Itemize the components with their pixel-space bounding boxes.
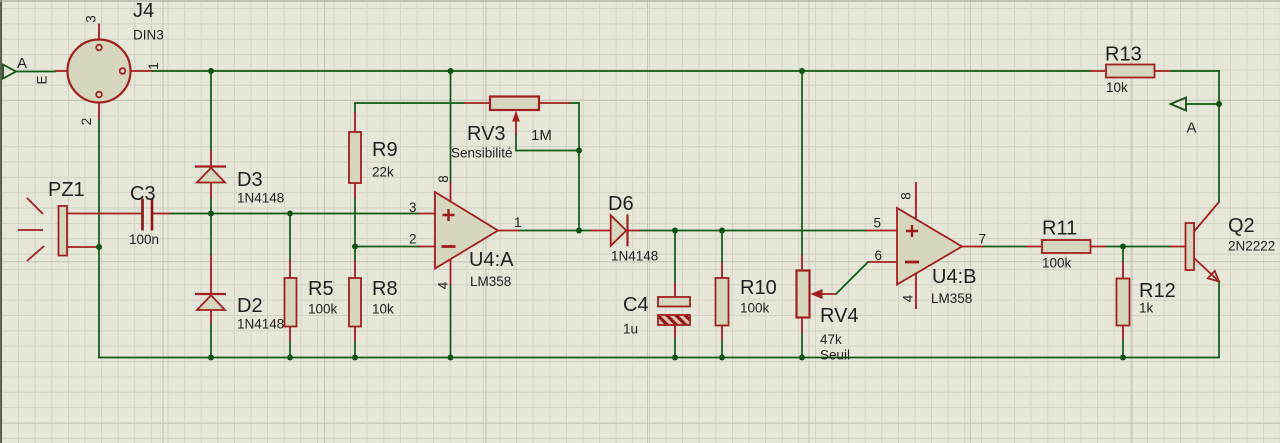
svg-text:R8: R8: [372, 278, 398, 300]
svg-text:RV4: RV4: [820, 305, 859, 327]
wire: VCC dot down to U4:A pin8: [450, 71, 452, 182]
terminal A (right, near Q2): [1171, 98, 1187, 111]
svg-text:2N2222: 2N2222: [1228, 239, 1275, 254]
svg-text:Sensibilité: Sensibilité: [451, 146, 513, 161]
svg-text:Q2: Q2: [1228, 215, 1255, 237]
svg-text:LM358: LM358: [470, 274, 511, 289]
svg-text:R13: R13: [1105, 44, 1142, 66]
junction: output node at RV3 column: [576, 228, 582, 234]
svg-text:R9: R9: [372, 139, 398, 161]
diode D2 1N4148: [195, 255, 226, 324]
junction: pin2 node R9/R8: [352, 244, 358, 250]
resistor R13 10k: [1090, 65, 1171, 78]
svg-text:22k: 22k: [372, 165, 394, 180]
junction: input node at R5: [287, 211, 293, 217]
svg-text:47k: 47k: [820, 332, 842, 347]
svg-text:1: 1: [146, 62, 161, 70]
resistor R8 10k: [349, 260, 361, 341]
junction: detector node at R10: [719, 228, 725, 234]
junction: top rail at RV4 branch: [799, 68, 805, 74]
svg-text:R12: R12: [1139, 280, 1176, 302]
capacitor C3 100n: [143, 199, 171, 231]
diode D3 1N4148: [195, 150, 226, 198]
connector J4 DIN3: [55, 24, 152, 120]
junction: ground rail at R10: [719, 355, 725, 361]
svg-text:8: 8: [436, 175, 451, 183]
wire: R12 bottom to ground rail: [1122, 340, 1124, 358]
wire: C4 bottom to ground rail: [674, 338, 676, 358]
svg-text:C4: C4: [623, 294, 649, 316]
wire: input node horizontal C3 to U4:A pin3: [170, 213, 419, 215]
transistor Q2 2N2222: [1170, 202, 1219, 282]
wire: R9 bottom to pin2 node: [354, 198, 356, 247]
svg-text:D3: D3: [237, 169, 263, 191]
svg-text:LM358: LM358: [931, 291, 972, 306]
wire: VCC dot down to RV4 top: [801, 71, 803, 255]
wire: VCC top rail J4 pin1 to R13: [152, 70, 1090, 72]
potentiometer RV4 47k: [797, 255, 837, 333]
wire: VCC dot down to D3: [210, 71, 212, 150]
wire: R5 top to input node: [289, 214, 291, 261]
terminal A (left input): [3, 65, 16, 79]
svg-text:4: 4: [901, 294, 916, 302]
junction: ground rail at U4:A pin4: [448, 355, 454, 361]
junction: ground rail at R8: [352, 355, 358, 361]
svg-text:1: 1: [514, 215, 522, 230]
wire: R8 bottom to ground rail: [354, 341, 356, 358]
wire: R10 bottom to ground rail: [721, 340, 723, 358]
wire: R11 to Q2 base: [1106, 246, 1170, 248]
svg-text:D2: D2: [237, 295, 263, 317]
junction: RV3 wiper/right end: [576, 148, 582, 154]
svg-text:100k: 100k: [1042, 256, 1072, 271]
resistor R10 100k: [716, 262, 729, 340]
junction: ground rail at D2: [208, 355, 214, 361]
svg-text:100k: 100k: [740, 301, 770, 316]
svg-text:C3: C3: [130, 183, 156, 205]
wire: D3 to input node: [210, 198, 212, 214]
piezo transducer PZ1: [18, 198, 143, 261]
junction: ground rail at R12: [1120, 355, 1126, 361]
wire: R9 top corner to RV3 left: [355, 103, 464, 112]
svg-text:U4:B: U4:B: [932, 266, 976, 288]
svg-text:A: A: [17, 55, 27, 72]
svg-text:1u: 1u: [623, 322, 638, 337]
op-amp U4:B LM358: [866, 182, 983, 309]
junction: top rail at U4:A pin8 branch: [448, 68, 454, 74]
wire: J4 pin2 down to ground rail: [98, 119, 100, 358]
svg-text:RV3: RV3: [467, 123, 506, 145]
wire: pin2 node down to R8: [354, 247, 356, 261]
diode D6 1N4148: [590, 214, 640, 246]
junction: ground rail at R5: [287, 355, 293, 361]
wire: D2 to ground rail: [210, 324, 212, 358]
svg-text:J4: J4: [133, 0, 154, 22]
svg-text:5: 5: [874, 216, 882, 231]
potentiometer RV3 1M: [464, 97, 570, 135]
wire: RV4 bottom to ground rail: [801, 333, 803, 358]
svg-text:R5: R5: [308, 278, 334, 300]
wire: input node down to D2: [210, 214, 212, 256]
wire: detector node down to C4: [674, 231, 676, 284]
wire: VCC top rail R13 to corner and down to Q2 collector: [1171, 71, 1220, 202]
svg-text:2: 2: [409, 232, 417, 247]
svg-text:8: 8: [899, 192, 914, 200]
svg-text:1N4148: 1N4148: [611, 249, 658, 264]
svg-text:PZ1: PZ1: [48, 179, 85, 201]
junction: ground rail at RV4: [799, 355, 805, 361]
svg-text:10k: 10k: [1106, 80, 1128, 95]
wire: terminal A to J4 pin E: [16, 71, 55, 73]
svg-text:1N4148: 1N4148: [237, 317, 284, 332]
svg-text:E: E: [35, 75, 50, 84]
svg-text:1M: 1M: [531, 127, 552, 144]
junction: detector node at C4: [672, 228, 678, 234]
resistor R12 1k: [1117, 262, 1130, 340]
svg-text:R11: R11: [1042, 218, 1077, 240]
resistor R5 100k: [285, 260, 297, 341]
wire: R5 bottom to ground rail: [289, 341, 291, 358]
junction: PZ1 bottom to ground column: [96, 244, 102, 250]
wire: D6 to U4:B pin5: [640, 230, 866, 232]
svg-text:A: A: [1187, 120, 1197, 137]
wire: detector node down to R10: [721, 231, 723, 263]
junction: top rail at D3 branch: [208, 68, 214, 74]
svg-text:U4:A: U4:A: [469, 249, 514, 271]
wire: terminal A2 to collector node: [1186, 103, 1219, 105]
capacitor C4 1u (polarized): [658, 283, 690, 338]
svg-text:10k: 10k: [372, 302, 394, 317]
svg-text:100n: 100n: [129, 232, 159, 247]
svg-text:DIN3: DIN3: [133, 28, 164, 43]
svg-text:Seuil: Seuil: [820, 348, 850, 363]
wire: pin2 node to U4:A pin2: [355, 246, 419, 248]
resistor R9 22k: [349, 112, 361, 198]
svg-text:1N4148: 1N4148: [237, 191, 284, 206]
svg-text:R10: R10: [740, 277, 777, 299]
junction: input node at D3/D2: [208, 211, 214, 217]
wire: U4:A output to D6: [519, 230, 590, 232]
svg-text:3: 3: [84, 15, 99, 23]
svg-text:D6: D6: [608, 193, 634, 215]
svg-text:2: 2: [79, 118, 94, 126]
wire: U4:A pin4 to ground rail: [450, 285, 452, 358]
wire: emitter down to ground rail: [1218, 281, 1220, 358]
svg-text:6: 6: [875, 248, 883, 263]
wire: base node down to R12: [1122, 247, 1124, 263]
wire: RV3 right end to feedback node and down to output: [570, 103, 579, 231]
wire: U4:B output to R11: [983, 246, 1026, 248]
junction: ground rail at C4: [672, 355, 678, 361]
svg-text:3: 3: [409, 200, 417, 215]
svg-text:100k: 100k: [308, 302, 338, 317]
op-amp U4:A LM358: [419, 182, 519, 285]
wire: RV4 wiper diagonal to U4:B pin6: [836, 262, 868, 294]
resistor R11 100k: [1026, 240, 1106, 253]
junction: base node at R11/R12: [1120, 244, 1126, 250]
wire: RV3 wiper to feedback node: [516, 134, 579, 151]
svg-text:1k: 1k: [1139, 301, 1154, 316]
wire: ground bottom rail: [99, 357, 1219, 359]
svg-text:4: 4: [436, 281, 451, 289]
junction: terminal A2 node: [1216, 101, 1222, 107]
svg-text:7: 7: [979, 232, 987, 247]
